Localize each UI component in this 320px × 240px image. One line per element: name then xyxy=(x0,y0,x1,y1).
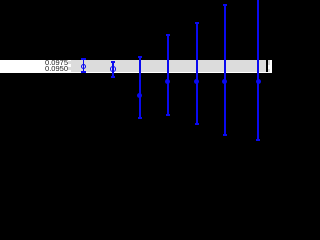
bar 4 stem xyxy=(167,35,169,114)
bar 7 bottom cap xyxy=(256,139,261,141)
bar 3 filled circle marker xyxy=(137,93,142,98)
bar 2 top cap xyxy=(111,61,116,63)
bar 4 bottom cap xyxy=(166,114,171,116)
bar 3 top cap xyxy=(138,56,143,58)
bar 7 filled circle marker xyxy=(256,79,261,84)
y tick mark 1 (gray, left spine) xyxy=(68,61,71,64)
bar 7 stem xyxy=(257,0,259,141)
bar 5 filled circle marker xyxy=(194,79,199,84)
bar 4 top cap xyxy=(166,34,171,36)
bar 6 top cap xyxy=(223,4,228,6)
white axes row strip xyxy=(0,60,272,73)
bar 4 filled circle marker xyxy=(165,79,170,84)
bar 6 bottom cap xyxy=(223,134,228,136)
right tick tooth 1 (gray) xyxy=(268,60,271,65)
bar 6 stem xyxy=(224,5,226,135)
gray uncertainty band xyxy=(71,60,266,72)
right tick tooth 2 (gray) xyxy=(268,69,271,73)
bar 5 top cap xyxy=(195,22,200,24)
bar 1 bottom cap xyxy=(81,71,86,73)
bar 1 top cap xyxy=(81,58,86,60)
bar 2 open circle marker xyxy=(110,66,116,72)
y tick label 1 xyxy=(38,60,68,66)
bar 3 stem xyxy=(139,56,141,117)
bar 6 filled circle marker xyxy=(222,79,227,84)
y tick mark 2 (gray, left spine) xyxy=(68,67,71,70)
bar 1 open circle marker xyxy=(81,64,87,70)
right spine (dark) xyxy=(266,60,267,72)
bar 1 stem xyxy=(83,59,85,72)
bar 3 bottom cap xyxy=(138,117,143,119)
bar 5 stem xyxy=(196,23,198,124)
y tick label 2 xyxy=(38,66,68,72)
bar 2 stem xyxy=(112,62,114,77)
bar 5 bottom cap xyxy=(195,123,200,125)
bar 2 bottom cap xyxy=(111,76,116,78)
